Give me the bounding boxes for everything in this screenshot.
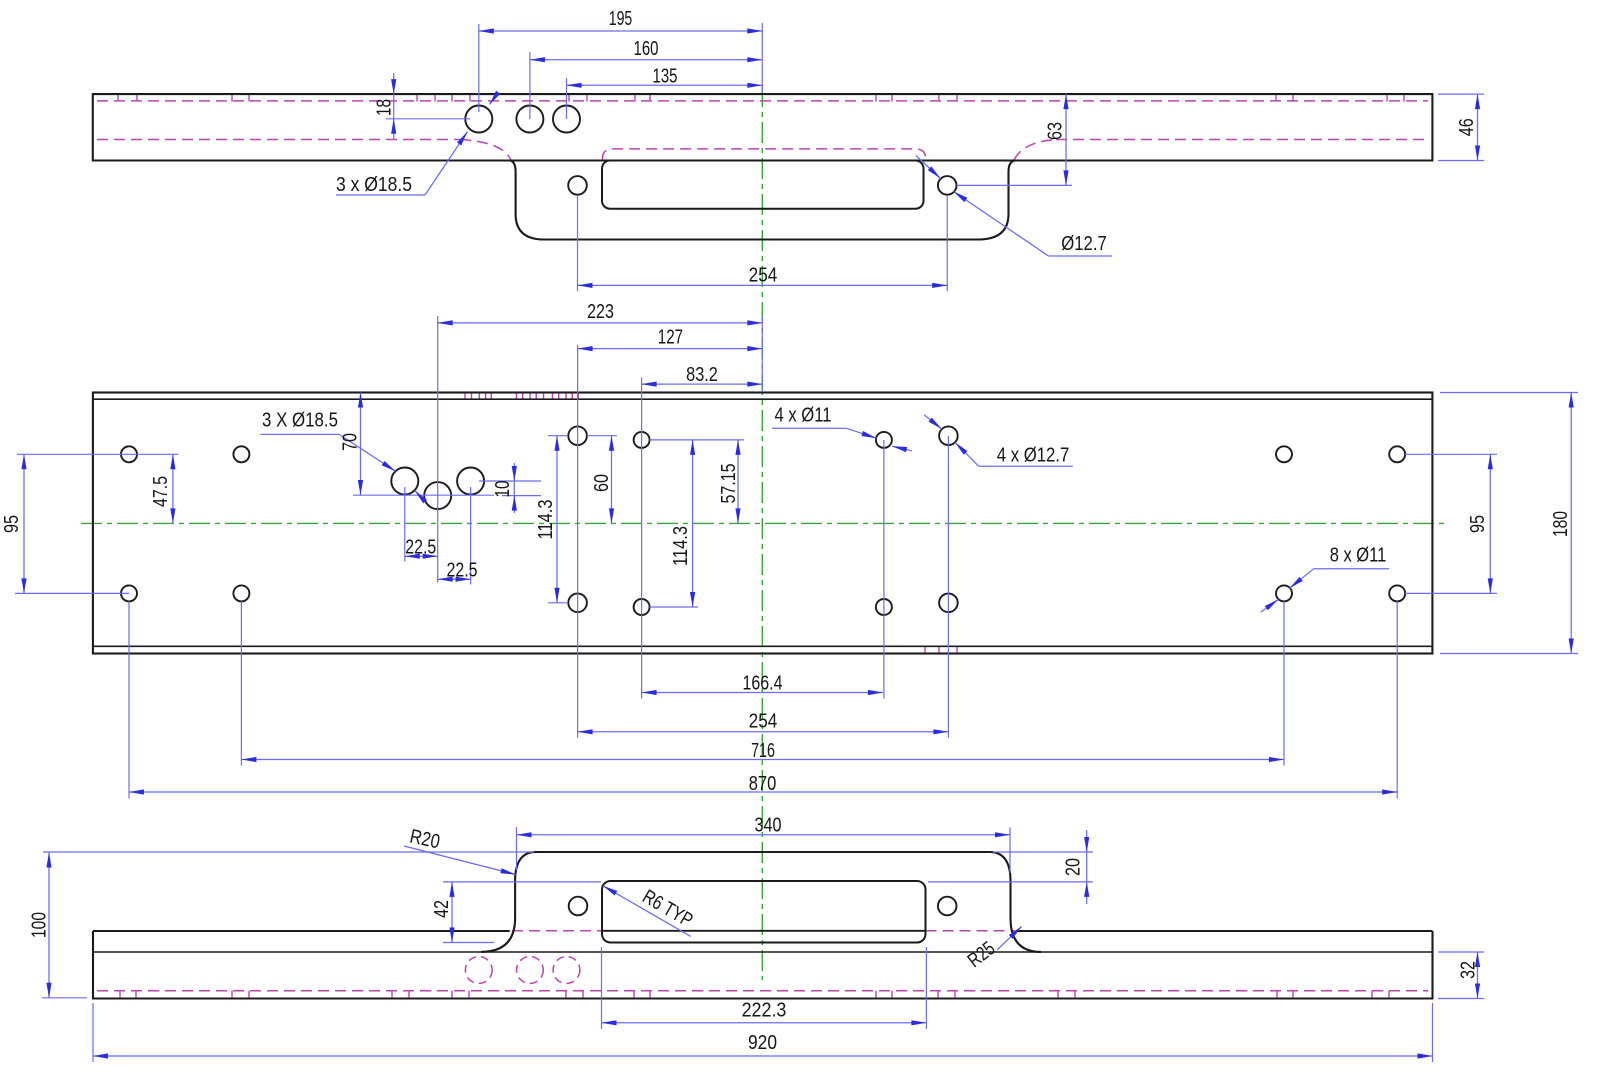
svg-text:114.3: 114.3 <box>535 500 557 540</box>
svg-text:114.3: 114.3 <box>670 526 692 566</box>
svg-text:340: 340 <box>755 815 782 837</box>
svg-text:135: 135 <box>653 66 678 88</box>
svg-text:222.3: 222.3 <box>742 999 787 1021</box>
svg-text:180: 180 <box>1550 511 1572 537</box>
svg-text:870: 870 <box>749 773 777 795</box>
svg-text:22.5: 22.5 <box>447 560 478 582</box>
svg-text:63: 63 <box>1045 122 1067 140</box>
svg-text:920: 920 <box>748 1032 777 1054</box>
svg-text:3 X Ø18.5: 3 X Ø18.5 <box>262 410 338 432</box>
svg-text:127: 127 <box>658 326 683 348</box>
svg-text:22.5: 22.5 <box>405 537 436 559</box>
svg-text:95: 95 <box>1 515 23 533</box>
svg-text:95: 95 <box>1467 515 1489 533</box>
svg-text:32: 32 <box>1458 961 1480 979</box>
svg-text:47.5: 47.5 <box>150 476 172 507</box>
svg-text:60: 60 <box>591 474 613 492</box>
svg-text:160: 160 <box>634 38 659 60</box>
svg-text:8 x Ø11: 8 x Ø11 <box>1330 544 1387 566</box>
svg-text:3 x Ø18.5: 3 x Ø18.5 <box>336 174 412 196</box>
svg-text:716: 716 <box>751 740 775 762</box>
svg-text:42: 42 <box>431 900 453 918</box>
svg-text:20: 20 <box>1063 858 1085 876</box>
svg-text:254: 254 <box>749 711 778 733</box>
svg-text:254: 254 <box>749 265 778 287</box>
svg-text:70: 70 <box>340 433 362 451</box>
svg-text:100: 100 <box>29 912 51 938</box>
svg-text:46: 46 <box>1456 118 1478 136</box>
svg-text:166.4: 166.4 <box>743 672 783 694</box>
svg-text:4 x Ø12.7: 4 x Ø12.7 <box>997 445 1070 467</box>
svg-text:18: 18 <box>374 99 396 116</box>
svg-text:4 x Ø11: 4 x Ø11 <box>775 405 832 427</box>
svg-text:Ø12.7: Ø12.7 <box>1061 233 1107 255</box>
svg-text:223: 223 <box>587 301 614 323</box>
svg-text:57.15: 57.15 <box>718 464 740 504</box>
svg-text:10: 10 <box>492 481 514 498</box>
svg-text:195: 195 <box>609 8 633 30</box>
svg-text:83.2: 83.2 <box>686 364 718 386</box>
